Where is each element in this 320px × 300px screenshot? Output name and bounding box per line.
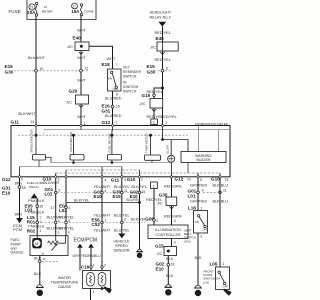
wire below illumination controller bbox=[171, 239, 173, 247]
svg-text:G16: G16 bbox=[142, 93, 151, 98]
svg-text:BLK/WHT: BLK/WHT bbox=[28, 56, 46, 60]
svg-text:BLU/YEL: BLU/YEL bbox=[114, 228, 130, 232]
svg-text:E15: E15 bbox=[5, 64, 14, 69]
coil 1 bbox=[87, 273, 95, 287]
junction dot branch to G16 bbox=[161, 87, 164, 90]
svg-text:15A: 15A bbox=[71, 9, 80, 14]
svg-text:FUEL METER: FUEL METER bbox=[107, 133, 111, 153]
svg-text:RED/YEL: RED/YEL bbox=[155, 58, 171, 62]
svg-text:SENSOR: SENSOR bbox=[113, 248, 129, 252]
arrow to vehicle speed sensor bbox=[118, 234, 125, 239]
svg-text:RELAY: RELAY bbox=[29, 185, 39, 189]
svg-text:2: 2 bbox=[40, 220, 42, 224]
wire drop to lamp symbol bbox=[170, 140, 172, 156]
svg-text:CONTROLLER: CONTROLLER bbox=[155, 233, 181, 237]
svg-text:1: 1 bbox=[116, 121, 118, 125]
svg-text:ON: ON bbox=[195, 220, 199, 224]
node dot A1 bbox=[72, 161, 75, 164]
arrow from headlight relay bbox=[158, 22, 166, 27]
svg-text:1: 1 bbox=[200, 206, 202, 210]
svg-text:G12: G12 bbox=[2, 177, 11, 182]
svg-text:2: 2 bbox=[124, 217, 126, 221]
node dot temp gauge bbox=[149, 134, 152, 137]
wire BLK from G15 to ground bbox=[167, 256, 169, 285]
wire BLU/WHT col bbox=[55, 177, 57, 236]
node dot speedometer bbox=[35, 134, 38, 137]
wire BLK from seat belt switch bbox=[197, 233, 199, 285]
svg-text:2: 2 bbox=[141, 177, 143, 181]
svg-text:RELAY No.2: RELAY No.2 bbox=[150, 16, 171, 20]
svg-text:E18: E18 bbox=[102, 62, 111, 67]
svg-text:6: 6 bbox=[166, 67, 168, 71]
fuse F17 circle bbox=[72, 3, 78, 9]
svg-text:J/C: J/C bbox=[67, 44, 73, 49]
svg-text:G29: G29 bbox=[69, 89, 78, 94]
svg-text:12: 12 bbox=[38, 291, 42, 295]
svg-text:J/C: J/C bbox=[157, 201, 163, 206]
wire branch from E40 right to E18 column bbox=[89, 46, 113, 69]
arrows up to ECM/PCM bbox=[77, 244, 83, 248]
node dot at illumination branch bbox=[161, 138, 164, 141]
svg-text:WHT: WHT bbox=[77, 29, 86, 33]
svg-text:9: 9 bbox=[202, 189, 204, 193]
svg-text:2: 2 bbox=[167, 291, 169, 295]
pin marks at meter edges bbox=[18, 124, 221, 177]
wire from meter pin2 down to junction bbox=[162, 126, 164, 140]
svg-text:ON: ON bbox=[216, 277, 220, 281]
svg-text:TEMPERATURE: TEMPERATURE bbox=[51, 281, 79, 285]
fuse box outline bbox=[27, 0, 96, 20]
svg-text:16: 16 bbox=[39, 205, 43, 209]
inner wire to buzzer left bbox=[198, 126, 200, 152]
svg-text:GRY/RED: GRY/RED bbox=[190, 184, 207, 188]
ground symbol G15 bbox=[165, 285, 171, 288]
seat belt switch box bbox=[194, 211, 208, 234]
svg-text:3: 3 bbox=[174, 219, 176, 223]
svg-text:BLU/YEL: BLU/YEL bbox=[114, 213, 130, 217]
ground symbol fuel pump bbox=[37, 285, 43, 288]
svg-text:4: 4 bbox=[58, 219, 60, 223]
svg-text:M: M bbox=[35, 241, 38, 246]
wire pin 3 from gauge to page edge bbox=[90, 289, 92, 300]
gauge stubs to A bbox=[73, 160, 75, 163]
svg-text:VEHICLE: VEHICLE bbox=[113, 240, 130, 244]
connector mark pin 21 on wire x81 bbox=[80, 69, 83, 72]
gauge element fuel bbox=[108, 155, 122, 161]
svg-text:ILLUMINATION: ILLUMINATION bbox=[155, 228, 181, 232]
ground symbol seat belt bbox=[195, 285, 201, 288]
svg-text:BLK/YEL: BLK/YEL bbox=[132, 185, 147, 189]
svg-text:C52: C52 bbox=[92, 222, 101, 227]
gauge element speedometer bbox=[33, 155, 46, 161]
svg-text:10: 10 bbox=[40, 67, 44, 71]
fuse F21 circle bbox=[29, 4, 35, 10]
svg-text:WHT: WHT bbox=[77, 79, 86, 83]
svg-text:G11: G11 bbox=[11, 120, 20, 125]
svg-text:YEL/WHT: YEL/WHT bbox=[94, 185, 112, 189]
svg-text:4: 4 bbox=[68, 230, 70, 234]
svg-text:J/C: J/C bbox=[140, 101, 146, 106]
node dot A2 bbox=[111, 161, 114, 164]
svg-text:3: 3 bbox=[58, 188, 60, 192]
svg-text:METER: METER bbox=[42, 10, 54, 14]
svg-text:2: 2 bbox=[166, 121, 168, 125]
wire BLK/YEL col from branch bbox=[65, 177, 67, 236]
svg-text:1: 1 bbox=[39, 229, 41, 233]
wire drop fuel gauge bbox=[111, 126, 114, 155]
svg-text:IGNITION: IGNITION bbox=[123, 85, 139, 89]
illumination controller box bbox=[148, 225, 188, 239]
svg-text:GRY/RED: GRY/RED bbox=[190, 199, 207, 203]
fuse symbol 20A IG METER bbox=[35, 2, 37, 16]
svg-text:BLK: BLK bbox=[34, 256, 42, 260]
svg-text:E45: E45 bbox=[156, 36, 165, 41]
node dot gauge ground bbox=[101, 287, 104, 290]
svg-text:1: 1 bbox=[222, 262, 224, 266]
svg-text:OFF: OFF bbox=[202, 228, 208, 232]
svg-text:FUSE: FUSE bbox=[9, 9, 21, 14]
wire col BRN to ECM/PCM bbox=[19, 177, 21, 218]
svg-text:J/C: J/C bbox=[66, 99, 72, 104]
wire WHT from fuse 15A down through E40 bbox=[80, 16, 82, 126]
wire YEL/WHT col bbox=[101, 177, 103, 271]
dashed connector row bbox=[50, 192, 145, 194]
svg-text:3: 3 bbox=[58, 230, 60, 234]
wire drop to speedometer bbox=[35, 126, 37, 155]
wire BLK/BLU col to front door switch bbox=[219, 177, 221, 267]
svg-text:E15: E15 bbox=[113, 194, 122, 199]
svg-text:TACHOMETER: TACHOMETER bbox=[69, 131, 73, 153]
svg-text:BLK/BLU: BLK/BLU bbox=[213, 184, 229, 188]
svg-text:OFF: OFF bbox=[113, 87, 119, 91]
gauge element tachometer bbox=[70, 155, 84, 161]
connector mark on wire x36 pin 10 bbox=[35, 69, 38, 72]
ground arrow front door switch bbox=[224, 289, 232, 295]
svg-text:GAUGE: GAUGE bbox=[11, 251, 25, 255]
svg-text:G12: G12 bbox=[102, 120, 111, 125]
svg-text:BLK/YEL: BLK/YEL bbox=[59, 215, 74, 219]
svg-text:WHT: WHT bbox=[77, 115, 86, 119]
wire drop temp gauge bbox=[150, 135, 152, 155]
wire BLU/YEL col to VSS bbox=[121, 177, 123, 234]
svg-text:RED/YEL: RED/YEL bbox=[161, 115, 177, 119]
svg-text:PNK/BLK: PNK/BLK bbox=[28, 211, 45, 215]
inner dashed drop bbox=[43, 130, 45, 136]
svg-text:4: 4 bbox=[105, 178, 107, 182]
svg-text:4: 4 bbox=[68, 206, 70, 210]
ground symbol BLK/YEL bbox=[137, 249, 142, 251]
svg-text:15: 15 bbox=[142, 190, 146, 194]
svg-text:BLK/YEL: BLK/YEL bbox=[74, 199, 89, 203]
combination meter box bbox=[11, 126, 230, 177]
svg-text:WHT: WHT bbox=[107, 57, 116, 61]
svg-text:2: 2 bbox=[104, 263, 106, 267]
wire BLK/WHT from fuse 20A down to meter pin 14 bbox=[35, 16, 37, 126]
connector E15/G30 dashed line left bbox=[14, 70, 89, 72]
svg-text:18: 18 bbox=[171, 262, 175, 266]
svg-text:ECM/PCM: ECM/PCM bbox=[73, 237, 97, 243]
svg-text:C16: C16 bbox=[81, 264, 90, 269]
wire gauge1 output bbox=[46, 157, 52, 162]
routing line A bbox=[51, 162, 171, 164]
svg-text:E15: E15 bbox=[147, 64, 156, 69]
svg-text:PCM: PCM bbox=[13, 227, 22, 232]
inner dashed bus bbox=[18, 134, 188, 136]
svg-text:11: 11 bbox=[124, 189, 128, 193]
svg-text:RED/GRN: RED/GRN bbox=[164, 184, 182, 188]
svg-text:WHT: WHT bbox=[77, 56, 86, 60]
lamp symbol circle bbox=[168, 155, 175, 162]
svg-text:21: 21 bbox=[30, 5, 34, 9]
svg-text:ON: ON bbox=[108, 76, 112, 80]
svg-text:L16: L16 bbox=[188, 205, 196, 210]
svg-text:3: 3 bbox=[68, 219, 70, 223]
svg-text:IN: IN bbox=[123, 81, 127, 85]
svg-text:G11: G11 bbox=[111, 178, 120, 183]
svg-text:BLK/YEL: BLK/YEL bbox=[131, 218, 146, 222]
wire RED/YEL to illumination controller bbox=[153, 189, 155, 226]
svg-text:BLK: BLK bbox=[166, 257, 174, 261]
svg-text:E16: E16 bbox=[2, 191, 11, 196]
svg-text:BLK: BLK bbox=[166, 274, 174, 278]
svg-text:17: 17 bbox=[72, 4, 76, 8]
svg-text:5: 5 bbox=[200, 178, 202, 182]
svg-text:1: 1 bbox=[93, 263, 95, 267]
svg-text:(LH): (LH) bbox=[203, 280, 209, 284]
routing line C bbox=[66, 169, 140, 171]
svg-text:GAUGE: GAUGE bbox=[58, 285, 72, 289]
warning buzzer box bbox=[181, 152, 226, 163]
svg-text:OFF: OFF bbox=[223, 284, 229, 288]
branch wire BLK/YEL horizontal bbox=[66, 202, 140, 204]
svg-text:HEADLIGHT: HEADLIGHT bbox=[150, 11, 172, 15]
svg-text:FUEL: FUEL bbox=[11, 238, 20, 242]
svg-text:BLK/BLU: BLK/BLU bbox=[213, 199, 229, 203]
svg-text:L01: L01 bbox=[188, 193, 196, 198]
svg-text:SWITCH: SWITCH bbox=[123, 90, 137, 94]
svg-text:11: 11 bbox=[223, 189, 227, 193]
svg-text:G10: G10 bbox=[127, 177, 136, 182]
svg-text:3: 3 bbox=[93, 290, 95, 294]
svg-text:18: 18 bbox=[22, 186, 26, 190]
svg-text:ILLUM: ILLUM bbox=[166, 145, 170, 154]
inner bus line solid bbox=[44, 129, 229, 131]
svg-text:1: 1 bbox=[104, 218, 106, 222]
wire BLK ground from fuel pump bbox=[39, 256, 41, 285]
svg-text:BRN: BRN bbox=[15, 213, 23, 217]
svg-text:SPEED: SPEED bbox=[115, 244, 128, 248]
key reminder switch box bbox=[108, 69, 122, 91]
inner wire to buzzer right bbox=[218, 130, 220, 152]
svg-text:14: 14 bbox=[31, 120, 35, 124]
svg-text:G15: G15 bbox=[155, 244, 164, 249]
svg-text:RED/YEL: RED/YEL bbox=[155, 31, 171, 35]
wire PNK/BLK col bbox=[36, 198, 38, 235]
svg-text:4: 4 bbox=[43, 257, 45, 261]
wire RED/GRN col bbox=[171, 177, 173, 197]
node dot tachometer bbox=[72, 134, 75, 137]
svg-text:PNK/BLK: PNK/BLK bbox=[28, 199, 45, 203]
svg-text:BLK: BLK bbox=[34, 272, 42, 276]
page link box 1 upper bbox=[151, 119, 158, 125]
ground arrow water temp gauge bbox=[104, 286, 112, 292]
svg-text:(ON): (ON) bbox=[184, 239, 191, 243]
svg-text:REMINDER: REMINDER bbox=[123, 70, 142, 74]
svg-text:BLK/WHT: BLK/WHT bbox=[19, 112, 37, 116]
gauge element temp bbox=[145, 155, 161, 160]
svg-text:BLU/WHT: BLU/WHT bbox=[44, 181, 61, 185]
svg-text:BLK/YEL: BLK/YEL bbox=[59, 227, 74, 231]
wire stub pin1 into bus bbox=[80, 126, 82, 130]
svg-text:17: 17 bbox=[51, 206, 55, 210]
svg-text:7: 7 bbox=[116, 63, 118, 67]
svg-text:R02: R02 bbox=[27, 228, 36, 233]
svg-text:J/C: J/C bbox=[157, 251, 163, 256]
svg-text:WATER: WATER bbox=[58, 276, 71, 280]
svg-text:BLU/YEL: BLU/YEL bbox=[127, 198, 141, 202]
svg-text:KEY: KEY bbox=[123, 66, 131, 70]
svg-text:IG: IG bbox=[44, 5, 48, 9]
svg-text:TEMP METER: TEMP METER bbox=[145, 133, 149, 153]
fuel pump motor bbox=[32, 238, 42, 248]
fuel gauge resistor bbox=[48, 241, 59, 245]
svg-text:YEL/WHT: YEL/WHT bbox=[94, 228, 112, 232]
svg-text:J/C: J/C bbox=[150, 45, 156, 50]
svg-text:E10: E10 bbox=[156, 266, 165, 271]
buzzer ground stub bbox=[187, 163, 189, 174]
svg-text:ORN/BLU: ORN/BLU bbox=[86, 254, 102, 258]
svg-text:2: 2 bbox=[200, 234, 202, 238]
svg-text:G30: G30 bbox=[147, 70, 156, 75]
routing line B bbox=[20, 166, 122, 168]
svg-text:7: 7 bbox=[197, 292, 199, 296]
routing line D bbox=[56, 172, 220, 174]
pin stubs to bottom edge bbox=[20, 163, 221, 177]
svg-text:4: 4 bbox=[174, 241, 176, 245]
svg-text:E40: E40 bbox=[73, 35, 82, 40]
wire GRY/RED col to seat belt switch bbox=[197, 177, 199, 211]
node dot fuel gauge bbox=[110, 134, 113, 137]
wire RED/YEL down to meter pin 2 bbox=[162, 27, 164, 126]
svg-text:20A: 20A bbox=[27, 10, 36, 15]
svg-text:2: 2 bbox=[156, 219, 158, 223]
wire BLK/YEL col to ground bbox=[139, 177, 141, 249]
svg-text:G30: G30 bbox=[5, 70, 14, 75]
node dot on BLK/YEL bbox=[138, 201, 141, 204]
arrow to ECM/PCM bbox=[16, 218, 23, 223]
svg-text:DOME: DOME bbox=[84, 10, 93, 14]
svg-text:G31: G31 bbox=[102, 108, 111, 113]
svg-text:SPEEDOMETER: SPEEDOMETER bbox=[30, 129, 34, 153]
svg-text:10: 10 bbox=[187, 177, 191, 181]
svg-text:3: 3 bbox=[42, 252, 44, 256]
svg-text:15: 15 bbox=[116, 105, 120, 109]
wire BLU/RED below switch bbox=[112, 91, 114, 126]
svg-text:13: 13 bbox=[225, 177, 229, 181]
fuse symbol 15A DOME bbox=[80, 4, 82, 16]
svg-text:E10: E10 bbox=[94, 194, 103, 199]
svg-text:BLU/RED: BLU/RED bbox=[105, 96, 122, 100]
svg-text:21: 21 bbox=[85, 67, 89, 71]
svg-text:BUZZER: BUZZER bbox=[197, 158, 211, 162]
svg-text:G12: G12 bbox=[175, 176, 184, 181]
svg-text:BLK: BLK bbox=[195, 256, 203, 260]
coil 2 bbox=[98, 273, 106, 287]
front door switch box bbox=[216, 267, 230, 290]
svg-text:SWITCH: SWITCH bbox=[123, 75, 137, 79]
wire drop tachometer bbox=[73, 135, 75, 154]
page link box 1 lower bbox=[151, 182, 158, 189]
wire branch to buzzer bbox=[163, 140, 189, 152]
svg-text:BRN: BRN bbox=[15, 181, 23, 185]
svg-text:L05: L05 bbox=[210, 261, 218, 266]
svg-text:BLU/RED: BLU/RED bbox=[105, 114, 122, 118]
